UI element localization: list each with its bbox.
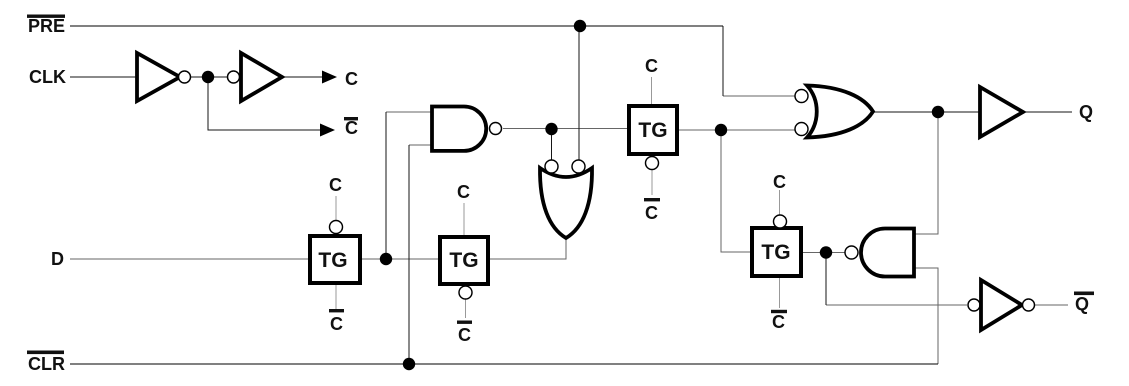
- svg-text:TG: TG: [638, 119, 667, 142]
- svg-text:C: C: [645, 56, 658, 76]
- svg-text:TG: TG: [761, 241, 790, 264]
- svg-text:PRE: PRE: [28, 16, 65, 36]
- svg-text:C: C: [345, 118, 358, 138]
- svg-text:C: C: [773, 172, 786, 192]
- svg-text:C: C: [457, 182, 470, 202]
- svg-text:TG: TG: [449, 249, 478, 272]
- svg-text:C: C: [772, 312, 785, 332]
- svg-text:TG: TG: [318, 249, 347, 272]
- svg-text:Q: Q: [1075, 294, 1089, 314]
- svg-text:C: C: [330, 314, 343, 334]
- svg-text:C: C: [329, 175, 342, 195]
- svg-text:D: D: [51, 249, 64, 269]
- svg-text:C: C: [645, 203, 658, 223]
- svg-text:Q: Q: [1079, 102, 1093, 122]
- svg-text:CLK: CLK: [29, 67, 66, 87]
- svg-text:C: C: [458, 325, 471, 345]
- svg-text:CLR: CLR: [28, 354, 65, 374]
- svg-text:C: C: [345, 69, 358, 89]
